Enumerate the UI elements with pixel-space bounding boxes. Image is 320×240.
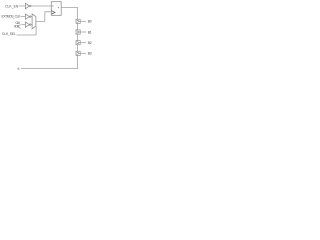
wire U3 output to mux input 1 (31, 24, 32, 26)
svg-text:CLK_SEL: CLK_SEL (2, 32, 16, 36)
wire tap B3 (80, 52, 86, 54)
buffer U2 (25, 14, 31, 19)
clock pin wedge (52, 11, 55, 14)
divider cell U9 (76, 51, 80, 55)
wire between cells U7-U8 (77, 34, 79, 41)
svg-text:B1: B1 (88, 30, 92, 34)
buffer U1 (25, 3, 31, 8)
wire EXTMOS_CLK to buffer U2 (21, 16, 26, 18)
wire mux output to flip-flop clock (36, 12, 51, 22)
wire CLK_SEL to mux select (17, 26, 36, 35)
mux U4 (32, 14, 36, 29)
svg-text:B3: B3 (88, 52, 92, 56)
divider cell U7 (76, 30, 80, 34)
svg-text:B2: B2 (88, 41, 92, 45)
wire tap B2 (80, 42, 86, 44)
svg-text:B0: B0 (88, 20, 92, 24)
svg-text:CLK_EN: CLK_EN (5, 4, 19, 8)
wire between cells U8-U9 (77, 45, 79, 51)
buffer U3 (25, 22, 31, 27)
wire divider chain bottom return (21, 55, 78, 68)
wire U2 output to mux input 0 (31, 16, 32, 18)
flip-flop U5 (51, 2, 61, 16)
svg-text:EXTMOS_CLK: EXTMOS_CLK (2, 15, 22, 19)
wire tap B1 (80, 31, 86, 33)
divider cell U8 (76, 41, 80, 45)
divider cell U6 (76, 19, 80, 23)
wire XOSC clock to buffer U3 (22, 24, 26, 26)
pin label Q (58, 7, 59, 8)
wire between cells U6-U7 (77, 23, 79, 30)
wire CLK_EN to buffer U1 (19, 5, 26, 7)
svg-text:XOSC_: XOSC_ (14, 24, 22, 28)
pin label D (52, 5, 53, 6)
wire U1 output to flip-flop D input (31, 5, 51, 7)
wire tap B0 (80, 20, 86, 22)
wire flip-flop Q output to divider chain (61, 8, 77, 20)
